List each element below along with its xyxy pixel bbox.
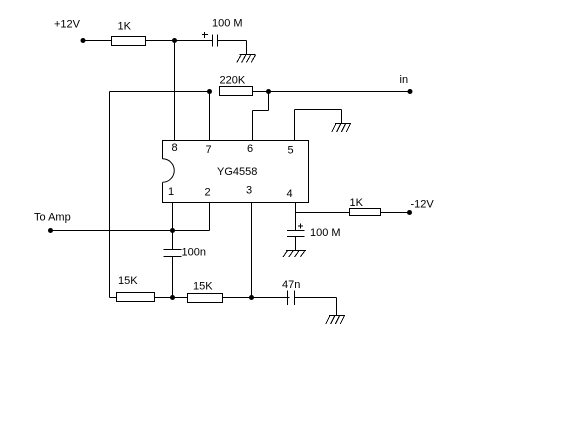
svg-text:To Amp: To Amp [34,212,71,224]
wire pin 7 [209,92,211,141]
capacitor C2 100n plates [164,249,182,251]
wire R3 to R4 [155,297,188,299]
wire +12V to R1 [83,40,112,42]
wire pin 1 [172,203,174,231]
svg-text:in: in [400,74,409,86]
wire pin 6 [252,111,254,141]
node pin1 junction [170,228,175,233]
svg-text:+12V: +12V [54,19,81,31]
ground G1 [237,55,256,63]
svg-text:15K: 15K [193,281,213,293]
resistor R2 220K body [220,87,253,96]
wire pin 2 [209,203,211,231]
wire down to ground G2 [341,110,343,124]
svg-text:100 M: 100 M [212,18,243,30]
wire down to ground G3 [336,298,338,316]
wire pin4 to R5 [296,212,350,214]
wire node to in terminal [269,91,411,93]
wire C3 right [295,297,337,299]
svg-text:47n: 47n [282,279,300,291]
svg-text:1: 1 [168,186,174,198]
svg-text:YG4558: YG4558 [217,166,257,178]
wire C2 to node1 [172,257,174,298]
svg-text:-12V: -12V [411,199,435,211]
wire R2 right to node [253,91,269,93]
svg-text:2: 2 [205,187,211,199]
wire V+ node to pin 8 [174,41,176,141]
ground G3 [326,316,345,325]
wire pin 4 [295,203,297,213]
node2 junction [249,295,254,300]
resistor R3 15K body [117,293,155,302]
ground G4 [283,251,306,258]
wire R5 to -12V [381,212,410,214]
svg-text:1K: 1K [118,21,132,33]
op-amp U1 YG4558 body [163,141,309,203]
resistor R1 1K body [112,37,146,46]
svg-text:6: 6 [247,143,253,155]
C4 polarity plus [298,225,303,227]
svg-text:15K: 15K [118,275,138,287]
svg-text:8: 8 [172,142,178,154]
node To Amp terminal [48,228,53,233]
C1 polarity plus [202,34,208,36]
wire left feedback rail vertical [109,92,111,298]
wire pin 6 jog left [253,110,269,112]
wire To Amp rail [51,230,210,232]
svg-text:5: 5 [288,145,294,157]
svg-text:100 M: 100 M [310,227,341,239]
node in terminal [408,89,413,94]
svg-text:7: 7 [206,144,212,156]
wire R1 to C1 [146,40,213,42]
wire elbow to R3 [110,297,117,299]
wire down to ground G1 [246,41,248,55]
wire node to C2 [172,231,174,250]
ground G2 [332,124,351,133]
wire R4 to node2 [223,297,252,299]
svg-text:1K: 1K [350,197,364,209]
capacitor C3 47n plates [287,291,289,306]
wire left feedback rail horizontal [110,91,210,93]
op-amp U1 notch [163,159,175,183]
svg-text:220K: 220K [220,75,246,87]
wire pin 6 jog down [268,92,270,111]
capacitor C1 100M plates [212,35,214,47]
svg-text:4: 4 [287,188,293,200]
node 220K right junction [266,89,271,94]
svg-text:3: 3 [246,185,252,197]
wire pin4 node to C4 [295,213,297,231]
resistor R5 1K body [350,209,381,216]
wire node2 to C3 [252,297,290,299]
svg-text:100n: 100n [182,247,206,259]
wire pin 5 right [295,109,342,111]
resistor R4 15K body [188,294,223,303]
wire pin 3 [251,203,253,298]
capacitor C4 100M plates [287,230,305,232]
node +12V terminal [81,38,86,43]
wire C1 right [218,40,247,42]
node1 junction [170,295,175,300]
node 220K left junction [207,89,212,94]
wire C4 to ground G4 [295,237,297,251]
node -12V terminal [407,210,412,215]
node junction V+ rail [172,38,177,43]
wire pin 5 up [294,110,296,141]
